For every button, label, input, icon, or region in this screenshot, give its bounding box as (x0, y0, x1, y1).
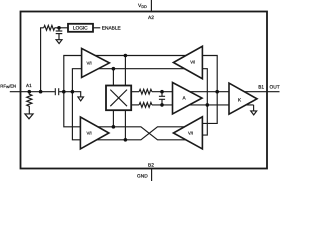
upper rail continues to OUT (152, 91, 280, 93)
bypass capacitor C2 (58, 28, 60, 31)
left vertical bus 1 (64, 56, 82, 127)
buffer K (229, 83, 257, 114)
ground below C2 (56, 40, 62, 44)
V/I converter U2 top-right (173, 46, 202, 78)
mixer drive vertical B (112, 69, 114, 86)
svg-text:A2: A2 (148, 15, 154, 21)
wire after C1 (59, 91, 72, 93)
svg-text:V/I: V/I (190, 60, 195, 65)
junction input to bus 1 (62, 90, 66, 94)
filter resistor R4 (139, 103, 152, 108)
V/I converter U4 bottom-right (173, 117, 202, 149)
junction second rail to mixer (112, 67, 116, 71)
coupling capacitor C1 plates (54, 88, 56, 95)
LOGIC box (68, 24, 93, 32)
ground below R1 (25, 114, 33, 119)
filter capacitor C3 (161, 92, 163, 96)
mixer drive vertical A (124, 56, 126, 86)
filter resistor R3 (139, 89, 152, 94)
junction lower rail A to mixer (112, 125, 116, 129)
junction at logic sense tap (39, 90, 43, 94)
junction at LOGIC input (57, 26, 61, 30)
svg-text:ENABLE: ENABLE (102, 26, 121, 32)
outer chip boundary (21, 12, 268, 169)
mixer X1 (106, 86, 131, 111)
junction C3 top (160, 90, 164, 94)
GND pin stub wire (151, 169, 153, 182)
svg-text:LOGIC: LOGIC (73, 26, 88, 32)
upper IF rail (131, 91, 139, 93)
V/I converter U3 bottom-left (80, 117, 109, 149)
V/I converter U1 top-left (82, 48, 110, 77)
bottom rail with crossover upper (80, 127, 195, 140)
lower IF rail (131, 104, 139, 106)
svg-text:V/I: V/I (188, 130, 193, 135)
ground input termination (78, 97, 84, 101)
K reference ground stub (253, 105, 255, 111)
svg-text:A1: A1 (26, 83, 32, 88)
junction feedback upper (215, 90, 219, 94)
wire R2 to LOGIC box (55, 27, 68, 29)
lower rail continues to K ground stub (152, 104, 254, 106)
wire LOGIC to ENABLE (93, 27, 100, 29)
junction input to bus 2 (71, 90, 75, 94)
svg-text:V/I: V/I (87, 60, 92, 65)
mixer bottom vertical B (124, 110, 126, 140)
top rail to feedback (82, 56, 218, 124)
amplifier A (173, 83, 203, 114)
bottom rail with crossover lower (80, 127, 195, 140)
mixer bottom vertical A (112, 110, 114, 127)
junction lower rail B to mixer (124, 138, 128, 142)
wire vertical to logic resistor (41, 28, 44, 92)
svg-text:B1: B1 (258, 84, 264, 89)
junction feedback lower (206, 103, 210, 107)
svg-text:RFIN/EN: RFIN/EN (0, 83, 16, 89)
ground below K (251, 111, 257, 115)
svg-text:V/I: V/I (87, 130, 92, 135)
RF input wire (10, 91, 55, 93)
svg-text:OUT: OUT (270, 85, 280, 91)
junction at R1 top (28, 90, 32, 94)
junction top rail to mixer (124, 54, 128, 58)
VDD pin stub wire (150, 0, 152, 12)
svg-text:B2: B2 (148, 163, 154, 169)
input shunt resistor R1 (27, 92, 32, 114)
wire stub to input ground (72, 92, 80, 97)
resistor R2 to logic (44, 25, 55, 30)
junction C3 bottom (160, 103, 164, 107)
svg-text:GND: GND (137, 174, 148, 180)
second rail to feedback (82, 69, 208, 135)
left vertical bus 2 (72, 69, 81, 140)
